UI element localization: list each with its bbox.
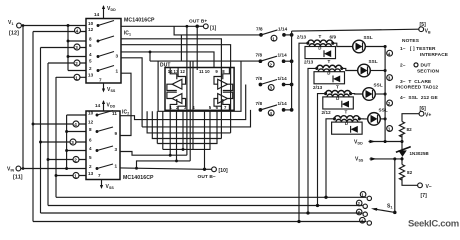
wire net3 IC1 pin6 xyxy=(41,47,87,49)
svg-text:1/14: 1/14 xyxy=(278,76,288,81)
svg-text:10: 10 xyxy=(88,21,94,26)
wire IC1 row8 exit to DUT right col xyxy=(121,39,221,139)
LED SSL1 xyxy=(353,35,373,53)
wire passthrough x193 xyxy=(192,61,194,149)
DUT inner box xyxy=(165,68,234,111)
relay T3 block xyxy=(313,84,353,109)
svg-text:2/12: 2/12 xyxy=(322,110,332,115)
wire T2 left drop to bus xyxy=(308,68,317,213)
svg-text:SECTION: SECTION xyxy=(417,68,439,74)
svg-text:SSL: SSL xyxy=(374,83,383,88)
svg-text:7: 7 xyxy=(98,173,101,178)
svg-text:4: 4 xyxy=(89,52,92,57)
svg-text:3: 3 xyxy=(75,45,78,50)
node 2 circled at IC1 pin5 xyxy=(74,60,80,66)
svg-text:11: 11 xyxy=(199,69,204,74)
bottom bus line net2 xyxy=(48,205,363,207)
svg-text:[10]: [10] xyxy=(219,168,229,174)
diode D4 snubber box xyxy=(332,122,363,134)
IC2 switch 4 xyxy=(96,164,113,170)
svg-text:1: 1 xyxy=(115,163,118,168)
svg-text:[7]: [7] xyxy=(421,193,428,199)
svg-text:7/8: 7/8 xyxy=(256,76,263,81)
wire IC1 pin1 to IC2 pin9 xyxy=(120,73,131,135)
svg-text:1: 1 xyxy=(388,127,391,132)
svg-text:2: 2 xyxy=(89,164,92,169)
wire net4 IC1 pin12 xyxy=(33,31,86,33)
svg-text:OUT B−: OUT B− xyxy=(198,174,216,180)
notes text xyxy=(396,38,449,101)
wire T4 left drop to bus xyxy=(326,119,334,198)
svg-text:12: 12 xyxy=(88,120,94,125)
switch row1 7/8 1/14 xyxy=(256,26,293,41)
IC2 pin numbers left xyxy=(88,111,94,177)
svg-text:1– [ ] TESTER: 1– [ ] TESTER xyxy=(400,46,436,52)
svg-text:4: 4 xyxy=(388,51,391,56)
svg-text:[11]: [11] xyxy=(13,175,23,181)
svg-text:SSL: SSL xyxy=(369,59,378,64)
wire ring top to switch row2 xyxy=(150,60,260,62)
wire T4 right to LED4 xyxy=(359,118,367,120)
DUT section ring xyxy=(158,61,241,111)
svg-text:MC14016CP: MC14016CP xyxy=(124,18,155,24)
wire VB top line xyxy=(292,29,419,31)
relay T1 block xyxy=(297,34,337,59)
S1 contact 1 xyxy=(360,192,371,201)
wire net2 IC1 pin5 xyxy=(48,62,86,64)
node 4 circled at IC1 pin12 xyxy=(75,28,81,34)
svg-text:1/14: 1/14 xyxy=(278,53,288,58)
DUT inverter C xyxy=(214,68,233,91)
svg-text:2: 2 xyxy=(75,61,78,66)
wire LED3 cathode to bus xyxy=(375,93,385,95)
svg-text:7/8: 7/8 xyxy=(256,101,263,106)
svg-text:D: D xyxy=(336,96,339,101)
svg-text:8: 8 xyxy=(89,127,92,132)
svg-text:7/8: 7/8 xyxy=(256,26,263,31)
svg-text:82: 82 xyxy=(407,170,413,175)
wire nest h1 IC2 pin11 to row3 xyxy=(120,85,246,120)
wire net1 vertical x56 xyxy=(55,77,57,197)
wire IC1 row10 to OUT B+ xyxy=(121,25,197,27)
IC2 switch 3 xyxy=(96,146,113,152)
svg-text:3: 3 xyxy=(115,147,118,152)
svg-text:2/13: 2/13 xyxy=(304,60,314,65)
DUT top pin numbers xyxy=(168,69,226,74)
svg-text:14: 14 xyxy=(95,103,101,108)
svg-text:V+: V+ xyxy=(425,113,431,119)
S1 contact 4 xyxy=(360,217,372,225)
wire net1 IC2 pin13 xyxy=(56,175,86,177)
node 4 circled on bus xyxy=(387,50,393,56)
svg-text:9: 9 xyxy=(115,131,118,136)
diode D1 snubber box xyxy=(305,47,336,59)
wire VIN bus up to IC2 pins 10,8,4 xyxy=(67,115,86,169)
VSS tap arrow xyxy=(355,156,404,162)
svg-text:3: 3 xyxy=(388,76,391,81)
IC1 pin14 VDD xyxy=(94,5,116,19)
wire T1 right to LED1 xyxy=(333,43,353,46)
svg-text:2/13: 2/13 xyxy=(297,35,307,40)
IC2 switch 2 xyxy=(96,127,113,133)
node 1 circled at IC2 pin13 xyxy=(73,173,79,179)
svg-text:1: 1 xyxy=(116,69,119,74)
wire nest h8 to OUT B- line xyxy=(137,161,191,168)
wire nest h6 DUT pin5 xyxy=(163,110,210,149)
svg-text:2: 2 xyxy=(74,158,77,163)
svg-text:[1]: [1] xyxy=(210,25,217,31)
wire resistor to zener xyxy=(401,135,403,151)
wire V1 bus down to pins 8,4,2 xyxy=(68,26,86,71)
IC1 pin numbers left xyxy=(88,21,94,77)
relay T2 block xyxy=(304,59,345,84)
LED SSL4 xyxy=(368,107,388,125)
svg-text:82: 82 xyxy=(407,127,413,132)
wire V1 to IC1 pin10 xyxy=(21,25,86,27)
svg-text:6/9: 6/9 xyxy=(330,34,337,39)
wire net1 IC1 pin13 xyxy=(56,76,86,78)
IC2 box MC14016CP xyxy=(86,111,120,180)
wire passthrough x186.9 xyxy=(186,26,188,155)
wire row1 drop to ring xyxy=(180,35,182,61)
switch S1 wiper xyxy=(371,159,397,214)
terminal OUT B+ xyxy=(189,19,217,32)
svg-text:DUT: DUT xyxy=(421,63,431,69)
wire zener to resistor2 xyxy=(401,157,403,165)
switch row3 7/8 1/14 xyxy=(256,76,294,91)
svg-text:1: 1 xyxy=(75,75,78,80)
svg-text:NOTES: NOTES xyxy=(402,38,420,44)
DUT bottom pin numbers xyxy=(170,105,228,110)
IC1 switch 1 xyxy=(97,21,114,27)
svg-text:SSL: SSL xyxy=(379,107,388,112)
wire IC1 pin3 drop xyxy=(121,58,142,127)
node 3 circled at IC2 pin6 xyxy=(70,139,76,145)
bottom bus line net1 xyxy=(56,196,367,198)
wire V+ to resistor xyxy=(402,114,419,122)
svg-text:1: 1 xyxy=(74,174,77,179)
svg-text:D: D xyxy=(318,45,321,50)
resistor 82 top xyxy=(399,122,412,138)
S1 contact 2 xyxy=(356,200,367,208)
wire net2 vertical x48 xyxy=(47,63,49,206)
wire nest h3 xyxy=(147,111,231,133)
svg-text:1: 1 xyxy=(361,193,364,198)
svg-text:2: 2 xyxy=(388,101,391,106)
svg-text:2: 2 xyxy=(89,66,92,71)
svg-text:13: 13 xyxy=(88,73,94,78)
wire switch bus vertical x291.6 xyxy=(291,31,293,110)
switch row2 7/8 1/14 xyxy=(256,53,294,68)
svg-text:4– SSL 212 GE: 4– SSL 212 GE xyxy=(400,95,438,101)
resistor 82 bottom xyxy=(399,165,412,181)
svg-text:8: 8 xyxy=(89,37,92,42)
VDD tap arrow xyxy=(354,139,402,145)
IC2 pin7 VSS xyxy=(98,173,114,190)
node VIN junction xyxy=(65,167,68,170)
node 1 circled at IC1 pin13 xyxy=(74,74,80,80)
wire aux vertical x23 V1 row to VIN row xyxy=(22,26,24,169)
wire DUT pin2 drop xyxy=(176,110,178,161)
svg-text:7: 7 xyxy=(99,78,102,83)
node 4 circled at IC2 pin12 xyxy=(73,121,79,127)
svg-text:6: 6 xyxy=(89,138,92,143)
wire T2 right to LED2 xyxy=(342,68,358,70)
svg-text:2–: 2– xyxy=(400,63,406,69)
terminal VB xyxy=(419,22,431,35)
zener diode 1N3025B xyxy=(396,147,429,157)
wire OUT B+ drop xyxy=(196,26,198,70)
IC2 pin numbers right xyxy=(112,111,118,168)
svg-text:4: 4 xyxy=(89,146,92,151)
wire net3 vertical x40.5 xyxy=(40,48,42,214)
terminal V+ xyxy=(419,106,431,119)
terminal VIN xyxy=(7,166,23,180)
svg-text:V−: V− xyxy=(426,184,432,190)
IC2 switch 1 xyxy=(96,111,113,117)
svg-text:D: D xyxy=(345,121,348,126)
wire T3 right to LED3 xyxy=(351,93,363,95)
svg-text:3– T CLARE: 3– T CLARE xyxy=(400,79,432,85)
wire IC1 row6 exit to DUT right col xyxy=(121,45,231,133)
wire DUT pin1 drop xyxy=(169,110,171,155)
wire LED2 cathode to bus xyxy=(370,70,385,72)
svg-text:INTERFACE: INTERFACE xyxy=(420,52,449,58)
wire nest h4 xyxy=(152,111,221,138)
IC1 switch 3 xyxy=(97,52,114,58)
DUT inverter D xyxy=(214,92,233,110)
svg-text:10: 10 xyxy=(205,69,210,74)
svg-text:[12]: [12] xyxy=(9,31,19,37)
LED SSL2 xyxy=(358,59,378,77)
svg-text:4: 4 xyxy=(74,122,77,127)
node 2 circled at IC2 pin5 xyxy=(73,157,79,163)
svg-text:3: 3 xyxy=(71,140,74,145)
wire IC1 row4 exit to DUT pin10 xyxy=(121,52,214,68)
svg-text:10: 10 xyxy=(88,111,94,116)
DUT inverter A xyxy=(167,68,186,91)
wire net2 IC2 pin5 xyxy=(48,159,86,161)
IC1 pin7 VSS xyxy=(99,78,116,94)
bottom bus line net3 xyxy=(41,212,363,214)
svg-text:4: 4 xyxy=(76,29,79,34)
svg-text:14: 14 xyxy=(94,12,100,17)
svg-text:1/14: 1/14 xyxy=(278,101,288,106)
svg-text:1/14: 1/14 xyxy=(278,26,288,31)
wire nest h2 to row4 xyxy=(142,110,250,127)
IC1 pin numbers right xyxy=(116,53,119,73)
wire net3 IC2 pin6 xyxy=(41,141,87,143)
terminal V- xyxy=(418,183,432,199)
svg-text:6: 6 xyxy=(89,43,92,48)
terminal V1 xyxy=(8,20,21,37)
svg-text:T: T xyxy=(336,84,339,89)
svg-text:T: T xyxy=(345,110,348,115)
DUT inverter B xyxy=(167,92,186,110)
svg-text:13: 13 xyxy=(88,171,94,176)
wire OUT B- vertical to DUT xyxy=(204,110,206,169)
diode D2 snubber box xyxy=(314,72,345,84)
wire branch to ring top xyxy=(149,52,151,61)
wire net4 vertical x33 xyxy=(32,32,34,222)
svg-text:D: D xyxy=(327,71,330,76)
node 1 circled on bus xyxy=(387,126,393,132)
svg-text:SeekIC.com: SeekIC.com xyxy=(408,219,459,230)
svg-text:7/8: 7/8 xyxy=(256,53,263,58)
svg-text:5: 5 xyxy=(89,59,92,64)
wire resistor2 to V- xyxy=(402,178,418,186)
svg-text:T: T xyxy=(328,59,331,64)
node 3 circled at IC1 pin6 xyxy=(74,44,80,50)
svg-text:12: 12 xyxy=(180,69,185,74)
svg-text:T: T xyxy=(319,34,322,39)
LED SSL3 xyxy=(363,83,383,101)
node V1 junction xyxy=(67,24,70,27)
wire DUT pin3 drop xyxy=(182,110,184,149)
wire nest h5 DUT pin6 xyxy=(157,110,217,143)
svg-text:MC14016CP: MC14016CP xyxy=(123,175,154,181)
relay T4 block xyxy=(322,110,363,135)
wire LED4 cathode to bus xyxy=(380,118,385,120)
svg-text:1N3025B: 1N3025B xyxy=(410,151,429,156)
wire IC2 pin1 to OUT B- xyxy=(120,168,205,169)
bottom bus line net4 xyxy=(33,221,367,223)
svg-text:12: 12 xyxy=(88,27,94,32)
svg-text:OUT B+: OUT B+ xyxy=(189,19,207,25)
wire nest h7 IC2 pin3 to passthrough xyxy=(120,152,187,156)
terminal OUT B- xyxy=(198,167,229,180)
wire net4 IC2 pin12 xyxy=(33,123,86,125)
wire T1 left drop to bus xyxy=(299,43,308,221)
IC1 box MC14016CP xyxy=(86,19,121,84)
wire T3 left drop to bus xyxy=(318,94,326,206)
IC1 switch 2 xyxy=(97,36,114,42)
S1 contact 3 xyxy=(356,209,367,216)
svg-text:PICOREED TAD12: PICOREED TAD12 xyxy=(396,84,439,90)
wire VIN to IC2 pin2 xyxy=(21,168,86,170)
svg-text:1: 1 xyxy=(272,36,275,41)
node 3 circled on bus xyxy=(387,75,393,81)
switch row4 7/8 1/14 xyxy=(256,101,294,116)
IC1 switch 4 xyxy=(97,66,114,72)
svg-text:11: 11 xyxy=(112,111,117,116)
svg-text:2/13: 2/13 xyxy=(313,85,323,90)
IC2 pin14 VDD xyxy=(95,100,116,111)
wire LED cathode bus xyxy=(384,47,386,142)
wire passthrough x190.2 xyxy=(189,61,191,161)
wire LED1 cathode to bus xyxy=(365,46,385,48)
svg-text:5: 5 xyxy=(89,155,92,160)
svg-text:3: 3 xyxy=(116,53,119,58)
wire row1 horizontal xyxy=(174,26,261,35)
svg-text:SSL: SSL xyxy=(364,35,373,40)
node 2 circled on bus xyxy=(387,100,393,106)
diode D3 snubber box xyxy=(323,97,354,109)
